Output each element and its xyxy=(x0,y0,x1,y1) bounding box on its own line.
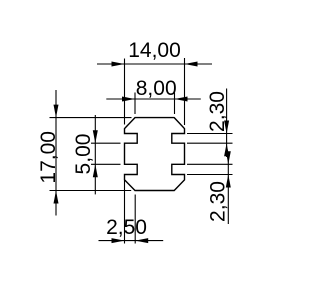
dimension 2,30 upper: arrow up xyxy=(224,143,229,156)
dimension 17,00 arrow bottom xyxy=(54,191,59,204)
dimension 14,00 dimension line xyxy=(97,63,212,65)
dimension 5,00 arrow top xyxy=(93,130,98,143)
dimension 5,00 extension line bottom xyxy=(91,163,121,165)
dimension 2,50 dimension line xyxy=(99,240,164,242)
dimension 17,00 arrow top xyxy=(54,105,59,118)
dimension 14,00 extension line left xyxy=(124,59,126,125)
dimension 8,00 dimension line xyxy=(106,98,201,100)
dimension 8,00 extension line right xyxy=(174,93,176,115)
svg-text:14,00: 14,00 xyxy=(128,39,181,62)
dimension 2,30 upper: extension line top xyxy=(187,133,233,135)
profile outline (extrusion cross-section with chamfers and side notches) xyxy=(125,118,185,191)
svg-text:2,50: 2,50 xyxy=(106,216,147,239)
dimension 17,00 extension line bottom xyxy=(50,190,132,192)
dimension 2,30 upper: extension line bottom xyxy=(187,142,233,144)
svg-text:2,30: 2,30 xyxy=(207,181,230,222)
dimension 14,00 arrow left xyxy=(112,62,125,67)
dimension 5,00 arrow bottom xyxy=(93,164,98,177)
dimension 2,30 lower: arrow down xyxy=(226,151,231,164)
dimension 2,30 lower: arrow up xyxy=(226,175,231,188)
dimension 8,00 extension line left xyxy=(134,93,136,115)
dimension 2,50 extension line right xyxy=(134,195,136,244)
dimension 8,00 arrow left xyxy=(122,97,135,102)
dimension 17,00 extension line top xyxy=(50,117,132,119)
svg-text:5,00: 5,00 xyxy=(72,134,95,175)
svg-text:8,00: 8,00 xyxy=(136,77,177,100)
dimension 5,00 dimension line xyxy=(94,115,96,194)
dimension 2,30 lower: dimension line xyxy=(227,154,229,225)
svg-text:2,30: 2,30 xyxy=(206,91,229,132)
svg-text:17,00: 17,00 xyxy=(37,131,60,184)
dimension 2,30 upper: arrow down xyxy=(224,121,229,134)
dimension 2,30 lower: extension line bottom xyxy=(187,174,233,176)
dimension 17,00 dimension line xyxy=(55,90,57,216)
dimension 14,00 extension line right xyxy=(184,58,186,125)
dimension 14,00 arrow right xyxy=(185,62,198,67)
dimension 2,50 arrow right xyxy=(135,238,148,243)
dimension 2,50 arrow left xyxy=(112,238,125,243)
dimension 2,30 upper: dimension line xyxy=(226,89,228,158)
dimension 2,50 extension line left xyxy=(124,180,126,244)
dimension 5,00 extension line top xyxy=(91,142,121,144)
dimension 8,00 arrow right xyxy=(175,97,188,102)
dimension 2,30 lower: extension line top xyxy=(187,163,233,165)
